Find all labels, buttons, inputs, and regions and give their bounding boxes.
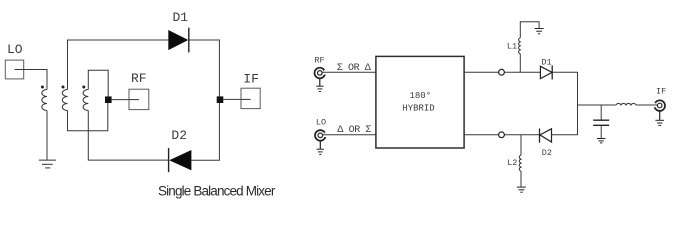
svg-text:L1: L1: [507, 42, 517, 52]
wire L2 bottom to ground: [520, 171, 522, 187]
svg-text:RF: RF: [131, 71, 147, 86]
inductor L1: [519, 38, 521, 54]
wire D1 cathode to IF node: [190, 40, 220, 96]
ground (LO port): [319, 141, 321, 149]
port LO ring gap eraser: [325, 133, 328, 138]
capacitor C1 stem top: [600, 105, 602, 120]
diode D2 (left circuit): [169, 150, 191, 170]
svg-text:Σ OR Δ: Σ OR Δ: [337, 63, 371, 74]
connector circle bottom: [499, 132, 505, 138]
ground (above L1): [535, 28, 544, 30]
wire hybrid top out to D1: [464, 71, 499, 73]
port RF box: [129, 89, 149, 109]
port IF center pin: [657, 103, 662, 108]
polarity dot coil 1: [41, 86, 44, 89]
port RF center pin: [318, 71, 323, 76]
wire LO to transformer primary: [24, 70, 47, 90]
wire coil2 bottom to RF center-tap node: [68, 103, 108, 131]
ground (below C1): [597, 138, 605, 140]
re-draw wire tip into IF pin: [650, 104, 657, 106]
wire RF node to RF box: [112, 99, 129, 101]
port RF coax outer ring: [315, 68, 326, 79]
transformer secondary winding B (coil 3): [83, 90, 88, 111]
capacitor C1 plates: [593, 119, 609, 121]
diode D2 (right circuit, open, pointing left): [540, 129, 552, 142]
svg-text:HYBRID: HYBRID: [402, 103, 434, 113]
inductor L3 (series IF): [616, 103, 636, 105]
svg-text:D1: D1: [541, 57, 551, 67]
port LO center pin: [318, 133, 323, 138]
wire IF tap: [578, 104, 617, 106]
ground (RF port): [319, 78, 321, 86]
svg-text:IF: IF: [656, 86, 666, 96]
diode D1 cathode bar (right): [551, 65, 553, 79]
diode D2 cathode bar (right): [539, 129, 541, 143]
wire coil2 riser to top rail: [68, 40, 169, 90]
svg-text:LO: LO: [7, 42, 23, 57]
ground (IF port): [659, 111, 661, 120]
wire L3 to IF port: [636, 104, 654, 106]
port RF stub: [129, 99, 139, 101]
ground (below L2): [517, 186, 526, 188]
wire LO port to hybrid: [323, 134, 376, 136]
ground (LO primary): [39, 159, 56, 161]
svg-text:D1: D1: [173, 10, 189, 25]
diode D2 (left circuit) cathode bar: [168, 148, 170, 172]
wire RF port to hybrid: [322, 71, 376, 73]
port IF box: [241, 88, 260, 108]
wire IF node to IF box: [223, 98, 241, 100]
svg-text:D2: D2: [542, 148, 552, 158]
wire coil3 bottom to bottom rail: [88, 111, 168, 161]
wire coil3 top to RF center-tap node: [88, 70, 108, 96]
polarity dot coil 2: [62, 86, 65, 89]
svg-text:Δ OR Σ: Δ OR Σ: [337, 125, 371, 136]
svg-text:Single Balanced Mixer: Single Balanced Mixer: [158, 183, 276, 198]
node RF junction (center tap): [105, 96, 112, 103]
svg-text:180°: 180°: [410, 91, 432, 101]
svg-text:IF: IF: [243, 71, 259, 86]
wire D2 anode to IF node: [191, 103, 219, 160]
wire L1 stem: [519, 54, 521, 73]
svg-text:LO: LO: [316, 118, 326, 128]
svg-text:RF: RF: [314, 56, 324, 66]
transformer secondary winding A (coil 2): [62, 90, 67, 111]
transformer T1 primary winding (coil 1): [42, 90, 47, 111]
port LO box: [5, 60, 23, 79]
node IF junction: [217, 96, 224, 103]
diode D1 cathode bar: [188, 28, 190, 53]
port IF ring gap eraser: [653, 103, 656, 108]
capacitor C1 stem bottom: [600, 126, 602, 138]
wire hybrid bottom out to D2: [464, 134, 499, 136]
port IF coax outer ring: [654, 100, 665, 111]
wire L1 top to ground: [520, 22, 539, 38]
hybrid U1 box: [376, 56, 464, 148]
wire primary to ground: [46, 111, 48, 160]
port RF ring gap eraser: [324, 70, 327, 75]
connector circle top: [499, 69, 505, 75]
port IF stub: [241, 98, 251, 100]
polarity dot coil 3: [82, 86, 85, 89]
port LO stub: [15, 69, 24, 71]
diode D1 (left circuit): [168, 30, 188, 50]
wire connector to D1 anode: [504, 71, 540, 73]
wire D2 to output join: [552, 105, 578, 135]
inductor L2: [519, 155, 521, 171]
diode D1 (right circuit, open): [540, 66, 552, 78]
svg-text:D2: D2: [171, 128, 187, 143]
wire connector to D2 cathode: [504, 134, 539, 136]
port LO coax outer ring: [315, 130, 326, 141]
wire D1 to output join: [553, 72, 578, 105]
wire L2 stem: [520, 135, 522, 155]
svg-text:L2: L2: [507, 158, 517, 168]
